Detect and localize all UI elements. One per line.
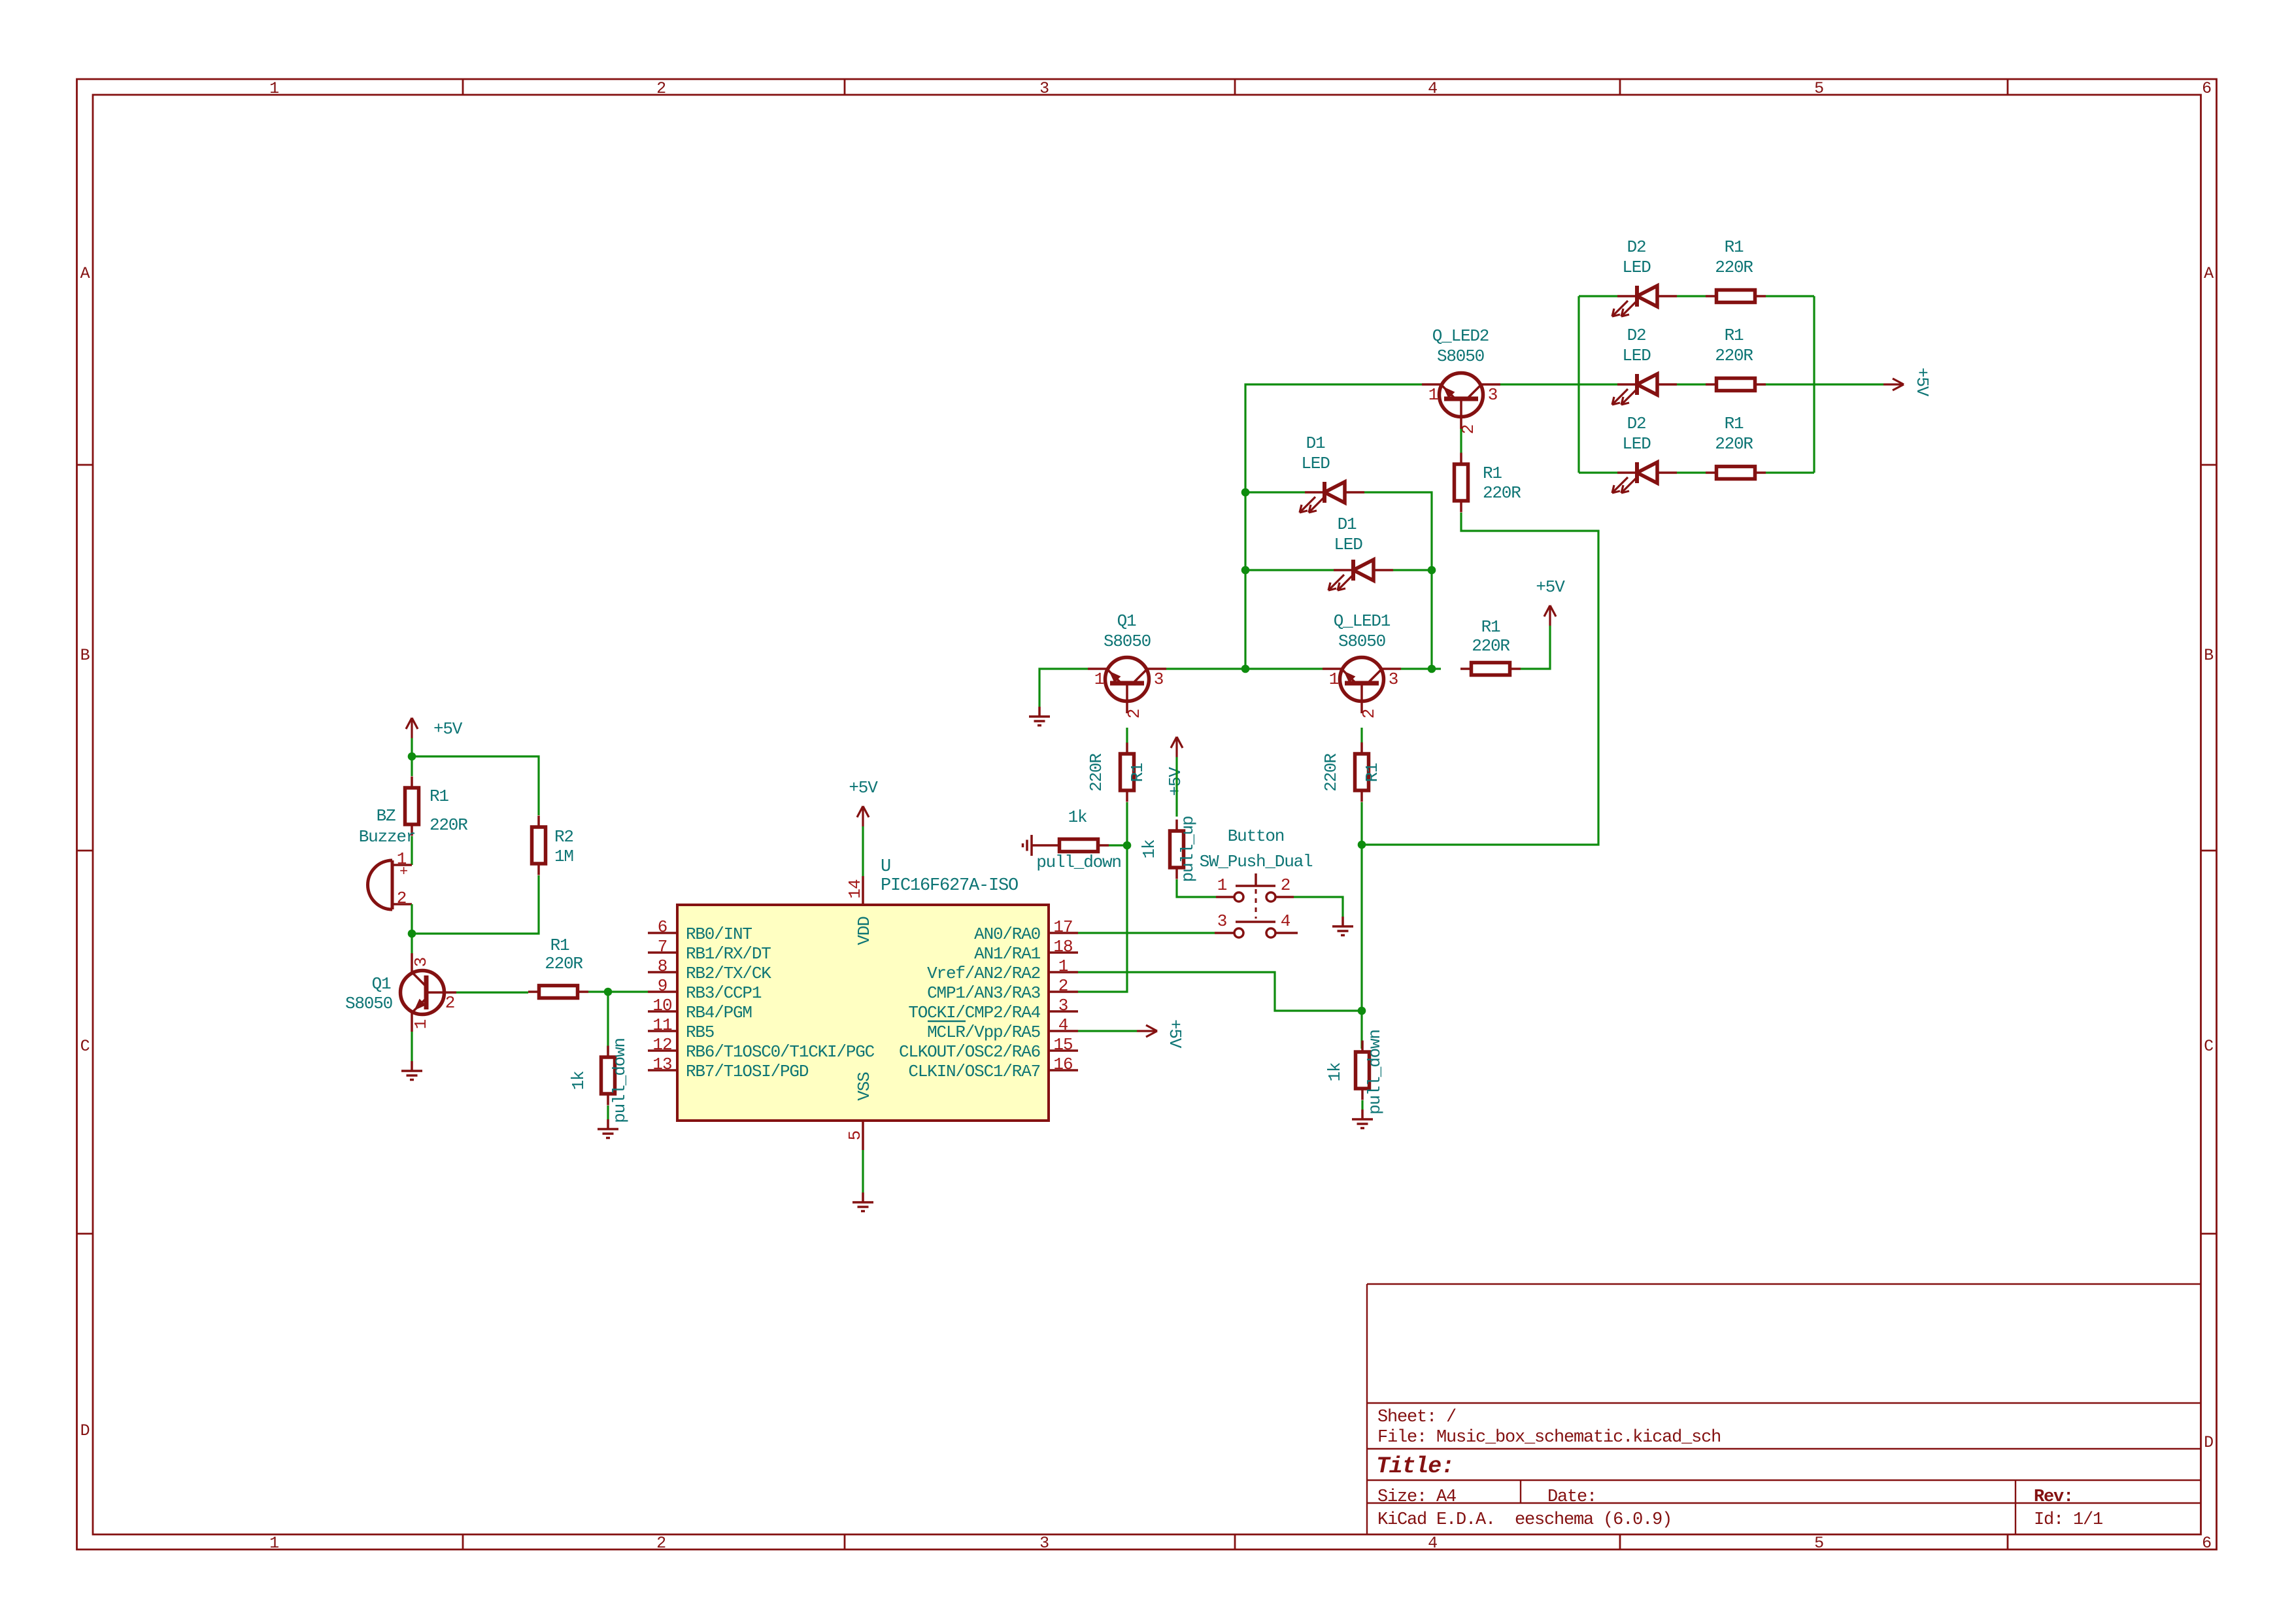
svg-text:LED: LED	[1334, 535, 1362, 554]
svg-text:+5V: +5V	[849, 778, 878, 798]
svg-text:pull_down: pull_down	[1036, 853, 1121, 872]
pin 5 VSS	[845, 1072, 874, 1150]
power +5V arrow (MCLR pin 4)	[1078, 1019, 1185, 1049]
svg-text:RB6/T1OSC0/T1CKI/PGC: RB6/T1OSC0/T1CKI/PGC	[686, 1042, 875, 1062]
svg-text:220R: 220R	[1483, 483, 1521, 503]
pin 18 AN1/RA1	[974, 937, 1078, 964]
power +5V (pull_up)	[1166, 737, 1185, 796]
wire node to Q1 collector	[411, 934, 413, 953]
junction D1 left row2	[1241, 566, 1250, 575]
pin 13 RB7/T1OSI/PGD	[648, 1055, 809, 1081]
svg-text:12: 12	[652, 1035, 671, 1055]
junction Q_LED1 base node	[1358, 841, 1366, 849]
wire node right and up to Q_LED2 resistor	[1362, 513, 1598, 845]
svg-text:3: 3	[1154, 669, 1163, 689]
svg-text:10: 10	[652, 996, 671, 1015]
svg-text:RB1/RX/DT: RB1/RX/DT	[686, 944, 771, 964]
ground (buzzer Q1)	[411, 1061, 413, 1071]
svg-text:A: A	[80, 264, 90, 283]
pin 14 VDD	[845, 876, 874, 945]
svg-text:RB3/CCP1: RB3/CCP1	[686, 983, 762, 1003]
svg-text:Q1: Q1	[372, 974, 391, 994]
svg-text:LED: LED	[1622, 258, 1651, 277]
svg-text:File: Music_box_schematic.kica: File: Music_box_schematic.kicad_sch	[1377, 1428, 1721, 1447]
power +5V (VDD)	[849, 778, 878, 826]
wire VSS down	[862, 1150, 864, 1193]
wire Q1 emitter to ground	[1039, 669, 1088, 707]
svg-text:220R: 220R	[1087, 754, 1106, 792]
svg-text:R1: R1	[1725, 326, 1744, 345]
svg-text:8: 8	[658, 956, 667, 976]
svg-text:4: 4	[1281, 911, 1290, 931]
svg-text:1: 1	[1058, 956, 1068, 976]
pin 11 RB5	[648, 1015, 714, 1042]
ground (RA2 pull-down)	[1361, 1109, 1364, 1119]
svg-text:CLKIN/OSC1/RA7: CLKIN/OSC1/RA7	[908, 1062, 1040, 1081]
wire Q_LED2 collector to D2 row2	[1500, 383, 1617, 385]
svg-text:220R: 220R	[1472, 636, 1510, 656]
resistor R1 220R (Q_LED2 base)	[1455, 453, 1521, 513]
pin 7 RB1/RX/DT	[648, 937, 771, 964]
svg-text:2: 2	[1281, 875, 1290, 895]
junction D1 left row1	[1241, 488, 1250, 497]
svg-text:LED: LED	[1622, 434, 1651, 454]
svg-text:AN1/RA1: AN1/RA1	[974, 944, 1040, 964]
pin 17 AN0/RA0	[974, 917, 1078, 944]
svg-text:1k: 1k	[1068, 807, 1087, 827]
svg-text:2: 2	[1124, 709, 1144, 719]
svg-text:LED: LED	[1301, 454, 1330, 473]
ic U PIC16F627A-ISO	[677, 857, 1049, 1121]
svg-text:6: 6	[658, 917, 667, 937]
svg-text:6: 6	[2202, 79, 2211, 98]
wire D2 row1 right	[1766, 295, 1814, 297]
resistor 1k pull_down (RA3)	[1036, 807, 1121, 872]
svg-text:B: B	[80, 646, 90, 665]
svg-text:4: 4	[1058, 1015, 1068, 1035]
svg-text:S8050: S8050	[1338, 632, 1385, 651]
junction buzzer node	[408, 930, 416, 938]
svg-text:220R: 220R	[1715, 346, 1753, 365]
led D2 (row 2)	[1612, 326, 1677, 405]
svg-text:R1: R1	[1128, 763, 1147, 782]
svg-text:Date:: Date:	[1547, 1487, 1596, 1507]
svg-text:220R: 220R	[1715, 258, 1753, 277]
junction RA2 node	[1358, 1007, 1366, 1015]
svg-text:4: 4	[1428, 79, 1437, 98]
wire D1 row2 left	[1245, 569, 1334, 571]
svg-text:220R: 220R	[1321, 754, 1341, 792]
svg-text:Buzzer: Buzzer	[359, 827, 415, 847]
junction D1 bus bottom	[1241, 665, 1250, 673]
svg-text:R1: R1	[1725, 414, 1744, 433]
svg-text:CMP1/AN3/RA3: CMP1/AN3/RA3	[927, 983, 1040, 1003]
wire D1 row1 left	[1245, 491, 1305, 493]
svg-text:14: 14	[845, 879, 865, 899]
wire RB3 node down to pull-down	[607, 992, 609, 1053]
wire pull-down to ground	[1361, 1100, 1363, 1109]
power +5V PWR01	[406, 718, 463, 756]
wire Q_LED2 base down	[1460, 429, 1462, 453]
svg-text:MCLR/Vpp/RA5: MCLR/Vpp/RA5	[927, 1023, 1040, 1042]
svg-text:3: 3	[1039, 1534, 1049, 1553]
svg-text:Sheet: /: Sheet: /	[1377, 1408, 1456, 1427]
svg-text:B: B	[2204, 646, 2214, 665]
power +5V (LED array)	[1883, 367, 1932, 397]
svg-text:D: D	[2204, 1433, 2213, 1452]
wire D2 right bus	[1813, 296, 1815, 473]
svg-text:15: 15	[1053, 1035, 1072, 1055]
wire D2 row2 mid	[1677, 383, 1706, 385]
pin 9 RB3/CCP1	[648, 976, 762, 1003]
wire Q1 collector to node	[1166, 668, 1323, 669]
resistor R2 1M	[532, 816, 573, 875]
pin 2 CMP1/AN3/RA3	[927, 976, 1078, 1003]
svg-text:S8050: S8050	[345, 994, 392, 1013]
svg-text:1: 1	[269, 1534, 278, 1553]
svg-text:KiCad E.D.A. eeschema (6.0.9): KiCad E.D.A. eeschema (6.0.9)	[1377, 1510, 1672, 1530]
svg-text:7: 7	[658, 937, 667, 956]
svg-text:Rev:: Rev:	[2034, 1487, 2073, 1507]
wire D2 row2 right	[1766, 383, 1814, 385]
svg-text:1k: 1k	[1325, 1062, 1345, 1081]
wire pull-down to node	[1109, 844, 1127, 846]
svg-text:2: 2	[1359, 709, 1379, 719]
wire R1 to +5V	[1521, 626, 1550, 669]
ground (button)	[1341, 917, 1344, 926]
wire pin 1 RA2 jog	[1078, 972, 1362, 1011]
svg-text:6: 6	[2202, 1534, 2211, 1553]
svg-text:2: 2	[656, 1534, 666, 1553]
pin 6 RB0/INT	[648, 917, 752, 944]
ground (RB3 pull-down)	[607, 1119, 609, 1129]
svg-text:+: +	[399, 864, 407, 880]
junction RA3 node	[1123, 841, 1132, 850]
svg-text:AN0/RA0: AN0/RA0	[974, 924, 1040, 944]
svg-text:D2: D2	[1627, 237, 1646, 257]
svg-text:5: 5	[1814, 79, 1823, 98]
svg-text:9: 9	[658, 976, 667, 996]
pin 12 RB6/T1OSC0/T1CKI/PGC	[648, 1035, 875, 1062]
svg-text:D2: D2	[1627, 414, 1646, 433]
wire +5V to pull-up	[1175, 757, 1177, 817]
junction +5V node	[408, 753, 416, 761]
wire Q_LED1 collector to R1	[1401, 668, 1441, 669]
svg-text:pull_up: pull_up	[1178, 817, 1198, 883]
svg-text:1: 1	[1329, 669, 1339, 689]
svg-text:+5V: +5V	[1166, 767, 1185, 796]
resistor R1 220R (D2 row 1)	[1706, 237, 1766, 303]
wire D1 row2 right	[1393, 569, 1432, 571]
svg-text:+5V: +5V	[1165, 1019, 1185, 1049]
svg-text:Q_LED2: Q_LED2	[1432, 326, 1489, 346]
led D2 (row 1)	[1612, 237, 1677, 316]
svg-text:S8050: S8050	[1437, 347, 1484, 366]
svg-text:Id: 1/1: Id: 1/1	[2034, 1510, 2102, 1530]
svg-text:1: 1	[1217, 875, 1227, 895]
svg-text:CLKOUT/OSC2/RA6: CLKOUT/OSC2/RA6	[899, 1042, 1040, 1062]
svg-text:D: D	[80, 1421, 90, 1440]
wire R1 to Q1 base	[1126, 728, 1128, 743]
svg-text:1: 1	[1094, 669, 1104, 689]
pin 16 CLKIN/OSC1/RA7	[908, 1055, 1078, 1081]
svg-text:220R: 220R	[430, 815, 467, 835]
svg-text:pull_down: pull_down	[610, 1038, 630, 1123]
svg-text:RB4/PGM: RB4/PGM	[686, 1003, 752, 1023]
wire R1 to buzzer pin 1	[411, 836, 413, 865]
svg-text:5: 5	[845, 1131, 865, 1141]
svg-text:5: 5	[1814, 1534, 1823, 1553]
wire D2 row3 left	[1579, 471, 1617, 473]
wire node up to R1	[1126, 802, 1128, 845]
svg-text:3: 3	[1488, 385, 1497, 405]
svg-text:1k: 1k	[569, 1071, 588, 1090]
svg-text:S8050: S8050	[1104, 632, 1151, 651]
wire D2 row1 mid	[1677, 295, 1706, 297]
wire D1 right bus down	[1430, 570, 1432, 669]
resistor R1 220R (Q_LED1 right)	[1460, 617, 1521, 675]
svg-text:RB0/INT: RB0/INT	[686, 924, 752, 944]
title block	[1367, 1284, 2201, 1534]
svg-text:18: 18	[1053, 937, 1072, 956]
buzzer BZ labels	[359, 806, 415, 847]
transistor Q_LED1 S8050	[1323, 611, 1401, 719]
ground (1k pull_down left)	[1023, 835, 1049, 856]
svg-text:R1: R1	[430, 787, 448, 806]
svg-text:RB7/T1OSI/PGD: RB7/T1OSI/PGD	[686, 1062, 809, 1081]
svg-text:1k: 1k	[1139, 839, 1159, 858]
wire D1 left bus	[1245, 384, 1422, 669]
svg-text:2: 2	[656, 79, 666, 98]
svg-text:2: 2	[397, 888, 406, 908]
wire pull-down to ground	[607, 1106, 609, 1119]
resistor 1k pull_down (RA2)	[1325, 1030, 1385, 1115]
svg-text:Size: A4: Size: A4	[1377, 1487, 1456, 1507]
svg-text:Q1: Q1	[1117, 611, 1136, 631]
resistor R1 220R (Q1 mid)	[1087, 743, 1147, 802]
wire pull-up to button pin 1	[1177, 879, 1216, 897]
svg-text:2: 2	[445, 993, 454, 1013]
svg-text:R2: R2	[554, 827, 573, 847]
svg-text:RB5: RB5	[686, 1023, 714, 1042]
svg-text:Title:: Title:	[1376, 1453, 1454, 1480]
svg-text:SW_Push_Dual: SW_Push_Dual	[1200, 852, 1313, 871]
svg-text:D1: D1	[1306, 433, 1325, 453]
svg-text:2: 2	[1058, 976, 1068, 996]
svg-text:3: 3	[1389, 669, 1398, 689]
pin 1 Vref/AN2/RA2	[927, 956, 1078, 983]
svg-text:1M: 1M	[554, 847, 573, 866]
wire Q1 base to R1	[456, 991, 528, 993]
junction D1 right row2	[1428, 566, 1436, 575]
transistor Q_LED2 S8050	[1422, 326, 1500, 434]
svg-text:3: 3	[1039, 79, 1049, 98]
pin 8 RB2/TX/CK	[648, 956, 771, 983]
wire D2 row1 left	[1579, 295, 1617, 297]
wire Q_LED1 base down	[1360, 728, 1362, 743]
wire node down to pin1 node	[1360, 845, 1362, 1011]
svg-text:D2: D2	[1627, 326, 1646, 345]
junction Q_LED1 collector node	[1428, 665, 1436, 673]
resistor R1 220R (buzzer)	[405, 777, 468, 836]
svg-text:R1: R1	[1362, 763, 1382, 782]
svg-text:PIC16F627A-ISO: PIC16F627A-ISO	[881, 876, 1018, 896]
wire pin 17 to button pin 3	[1078, 932, 1215, 934]
wire buzzer pin 2 down to node	[411, 904, 413, 934]
transistor Q1 S8050 (buzzer)	[345, 953, 456, 1032]
svg-text:Button: Button	[1228, 826, 1284, 846]
svg-text:C: C	[80, 1037, 90, 1056]
svg-text:4: 4	[1428, 1534, 1437, 1553]
switch Button SW_Push_Dual	[1200, 826, 1313, 938]
resistor R1 220R (D2 row 2)	[1706, 326, 1766, 391]
pin 4 MCLR/Vpp/RA5	[927, 1015, 1078, 1042]
svg-text:BZ: BZ	[377, 806, 396, 826]
svg-text:1: 1	[269, 79, 278, 98]
wire D2 row3 right	[1766, 471, 1814, 473]
ground (VSS)	[862, 1193, 864, 1202]
svg-text:Vref/AN2/RA2: Vref/AN2/RA2	[927, 964, 1040, 983]
svg-text:R1: R1	[550, 936, 569, 955]
svg-text:1: 1	[411, 1019, 431, 1029]
pin 15 CLKOUT/OSC2/RA6	[899, 1035, 1078, 1062]
wire R1 to RB3 pin 9	[588, 990, 648, 992]
power +5V (Q_LED1)	[1536, 577, 1565, 626]
svg-text:pull_down: pull_down	[1365, 1030, 1385, 1115]
svg-text:11: 11	[652, 1015, 672, 1035]
svg-text:13: 13	[652, 1055, 671, 1074]
wire R1 to RA3 node	[1360, 802, 1362, 845]
svg-text:R1: R1	[1725, 237, 1744, 257]
svg-text:3: 3	[1217, 911, 1226, 931]
resistor R1 220R (D2 row 3)	[1706, 414, 1766, 479]
svg-text:VDD: VDD	[854, 917, 874, 945]
resistor 1k pull_down (RB3)	[569, 1038, 630, 1123]
svg-text:+5V: +5V	[433, 719, 463, 739]
svg-text:D1: D1	[1338, 515, 1357, 534]
resistor 1k pull_up	[1139, 817, 1198, 883]
wire VDD up	[862, 826, 864, 876]
svg-text:17: 17	[1053, 917, 1072, 937]
svg-text:3: 3	[411, 958, 431, 967]
svg-text:+5V: +5V	[1536, 577, 1565, 597]
wire Q1 emitter to ground	[411, 1032, 413, 1061]
svg-text:R1: R1	[1483, 464, 1502, 483]
transistor Q1 S8050 (mid)	[1088, 611, 1166, 719]
wire +5V node down to R1	[411, 756, 413, 776]
svg-text:VSS: VSS	[854, 1072, 874, 1101]
wire node down to pull-down	[1360, 1011, 1362, 1049]
svg-text:U: U	[881, 857, 890, 877]
pin 10 RB4/PGM	[648, 996, 752, 1023]
resistor R1 220R (base)	[528, 936, 588, 998]
svg-text:RB2/TX/CK: RB2/TX/CK	[686, 964, 771, 983]
buzzer BZ	[368, 849, 413, 909]
junction RB3 node	[604, 988, 613, 996]
svg-text:LED: LED	[1622, 346, 1651, 365]
led D2 (row 3)	[1612, 414, 1677, 493]
ground (Q1 mid)	[1038, 707, 1041, 717]
wire button pin 2 to ground	[1294, 897, 1343, 917]
resistor R1 220R (Q_LED1 base)	[1321, 743, 1382, 802]
led D1 (row 2)	[1328, 515, 1393, 590]
pin 3 TOCKI/CMP2/RA4	[908, 996, 1078, 1023]
svg-text:TOCKI/CMP2/RA4: TOCKI/CMP2/RA4	[908, 1003, 1040, 1023]
svg-text:+5V: +5V	[1912, 367, 1932, 397]
svg-text:1: 1	[1428, 385, 1438, 405]
wire row2 to +5V	[1814, 383, 1883, 385]
svg-text:A: A	[2204, 264, 2214, 283]
svg-text:C: C	[2204, 1037, 2213, 1056]
wire D2 left bus	[1577, 296, 1579, 473]
wire D2 row3 mid	[1677, 471, 1706, 473]
wire pin 2 RA3 up to node	[1078, 845, 1127, 992]
wire R2 down to node	[412, 875, 539, 934]
svg-text:R1: R1	[1481, 617, 1500, 637]
svg-text:220R: 220R	[545, 954, 582, 973]
wire D1 row1 right	[1364, 492, 1432, 570]
wire +5V node to R2	[412, 756, 539, 815]
svg-text:220R: 220R	[1715, 434, 1753, 454]
led D1 (row 1)	[1300, 433, 1364, 513]
svg-text:Q_LED1: Q_LED1	[1334, 611, 1391, 631]
svg-text:3: 3	[1058, 996, 1068, 1015]
svg-text:16: 16	[1053, 1055, 1072, 1074]
